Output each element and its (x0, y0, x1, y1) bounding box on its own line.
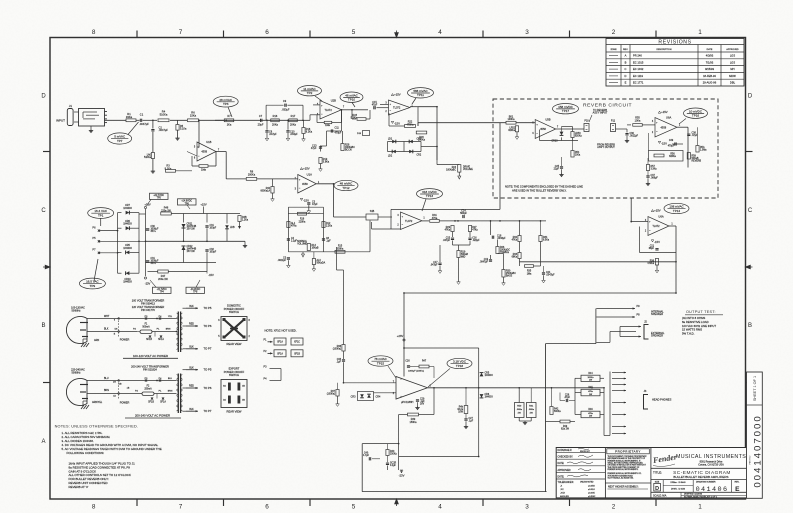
svg-text:+14.9VDC: +14.9VDC (181, 201, 192, 203)
resistor R35 1M (525, 265, 534, 268)
title block left column (556, 452, 605, 454)
svg-text:0041407000: 0041407000 (752, 414, 763, 487)
svg-text:SHEET 1 OF 1: SHEET 1 OF 1 (753, 376, 757, 401)
svg-text:1N4003: 1N4003 (123, 207, 132, 210)
svg-text:50KaDA: 50KaDA (317, 262, 326, 265)
svg-text:DRMm- I G 9440: DRMm- I G 9440 (671, 482, 687, 484)
svg-text:.XXX: .XXX (560, 492, 566, 494)
svg-text:POWER: POWER (120, 400, 130, 404)
svg-text:220Ka: 220Ka (299, 221, 306, 223)
resistor R5 (176, 125, 179, 131)
switch S1B (366, 214, 378, 220)
wire from volume to power amp (336, 247, 338, 270)
svg-text:470μF: 470μF (668, 146, 675, 148)
svg-text:OUTPUT TEST:: OUTPUT TEST: (686, 310, 716, 314)
wire tone bus (440, 220, 547, 222)
diode bridge LD1 CR1 LD2 CR2 (388, 139, 422, 155)
svg-text:A: A (625, 54, 627, 58)
svg-text:R47: R47 (422, 361, 427, 363)
title row (651, 467, 748, 469)
svg-text:BRN: BRN (104, 390, 109, 392)
test point TP18 (447, 358, 472, 368)
svg-text:R35: R35 (527, 271, 532, 273)
capacitor C5 bottom (287, 257, 290, 259)
svg-text:J1: J1 (69, 104, 73, 108)
svg-text:BCCN: BCCN (345, 149, 352, 151)
resistor R6 (188, 119, 199, 122)
resistor R54 (571, 151, 574, 158)
wire (498, 253, 504, 255)
potentiometer R59 REVERB (687, 153, 690, 160)
svg-text:820Ka: 820Ka (575, 136, 582, 138)
resistor R28 (341, 144, 344, 151)
resistor R16 (271, 119, 280, 122)
svg-text:.0033μF: .0033μF (497, 238, 506, 240)
svg-text:S1B: S1B (370, 210, 375, 213)
svg-text:.1μF: .1μF (469, 420, 474, 422)
svg-text:6: 6 (265, 504, 269, 511)
capacitor C33 (342, 359, 345, 361)
svg-text:62a 1W: 62a 1W (561, 429, 570, 431)
svg-text:SCALE: N/A: SCALE: N/A (653, 494, 667, 497)
voltage label box TP8 (186, 287, 205, 293)
svg-text:.033μF: .033μF (282, 108, 290, 112)
svg-text:SCT/MIN-2013E-(701)EX-KIT: 1: SCT/MIN-2013E-(701)EX-KIT: 1 OF 1 (684, 497, 717, 499)
op-amp U1B (197, 142, 216, 161)
capacitor C1 (136, 119, 140, 121)
ground plug domestic (81, 343, 84, 347)
svg-text:MH: MH (730, 67, 734, 71)
resistor R36 (655, 259, 658, 266)
test point TP13 (417, 189, 443, 199)
svg-text:-15V: -15V (394, 121, 400, 125)
svg-text:.0047μF: .0047μF (546, 275, 555, 277)
svg-text:1: 1 (698, 29, 702, 36)
svg-text:U1B: U1B (206, 140, 211, 144)
capacitor C8 (266, 120, 268, 130)
svg-text:TP10: TP10 (348, 98, 356, 102)
capacitor C28b (386, 462, 389, 464)
svg-text:TP18: TP18 (456, 364, 464, 368)
svg-text:470Ka: 470Ka (406, 123, 414, 126)
capacitor C30 (146, 228, 150, 230)
svg-text:B: B (748, 323, 752, 329)
svg-text:+15V: +15V (654, 209, 661, 213)
svg-text:SCOTTSDALE, AZ 85258 USA: SCOTTSDALE, AZ 85258 USA (608, 477, 634, 480)
wire (422, 220, 429, 222)
wire (458, 258, 460, 281)
drawing number row (651, 479, 748, 481)
svg-text:DATABASE F:: DATABASE F: (558, 449, 573, 452)
resistor R37 (336, 390, 339, 397)
svg-text:-15V: -15V (661, 141, 667, 145)
resistor R1 (126, 119, 136, 122)
svg-text:(100Ka): (100Ka) (327, 394, 335, 396)
svg-text:MDW: MDW (729, 74, 736, 78)
svg-text:P11: P11 (611, 120, 616, 123)
svg-text:-23V: -23V (145, 282, 151, 286)
svg-text:±0.050: ±0.050 (588, 486, 595, 488)
svg-text:C: C (625, 67, 627, 71)
svg-text:220a 1W: 220a 1W (161, 210, 171, 213)
svg-text:XF1A: XF1A (277, 353, 283, 356)
svg-text:R46: R46 (588, 409, 593, 411)
svg-text:.047μF: .047μF (443, 240, 451, 242)
resistor R3 (166, 169, 176, 172)
capacitor C31b (146, 260, 150, 262)
fender logo (651, 452, 678, 465)
svg-text:REAR VIEW: REAR VIEW (227, 342, 242, 346)
svg-text:1N4003: 1N4003 (485, 375, 494, 377)
svg-text:±0.005: ±0.005 (588, 492, 595, 494)
ground (177, 137, 179, 139)
svg-text:.068a: .068a (516, 409, 522, 411)
svg-text:1N4003: 1N4003 (485, 397, 494, 399)
wire main (199, 119, 224, 121)
svg-text:REAR VIEW: REAR VIEW (227, 409, 242, 413)
svg-text:TP17: TP17 (562, 109, 570, 113)
wire (145, 241, 147, 276)
svg-text:LDB: LDB (230, 227, 235, 229)
svg-text:100a: 100a (575, 155, 581, 157)
voltage label box TP5 (150, 193, 169, 199)
svg-text:1: 1 (698, 504, 702, 511)
transformer T1 (177, 312, 179, 353)
test point TP15 (368, 356, 393, 366)
svg-text:BLK: BLK (189, 367, 194, 369)
svg-text:EC 1771: EC 1771 (633, 81, 644, 85)
svg-text:10Ka: 10Ka (635, 119, 641, 122)
test point TP2 (298, 86, 322, 96)
svg-text:BLK: BLK (189, 409, 194, 411)
wire U1A out (316, 183, 333, 185)
svg-text:FENDER MUSICAL INSTRUMENTS.: FENDER MUSICAL INSTRUMENTS. (608, 468, 639, 471)
export switch box (221, 380, 247, 408)
test point TP9 (79, 278, 105, 289)
svg-text:1N4003: 1N4003 (123, 281, 132, 284)
svg-text:35V+: 35V+ (151, 263, 157, 265)
svg-text:R17: R17 (291, 114, 296, 118)
svg-text:BLU: BLU (104, 378, 109, 380)
wire (143, 119, 158, 121)
resistors R50 R51 output (515, 403, 525, 418)
svg-text:SF1B: SF1B (146, 339, 152, 341)
diode CR5 (126, 251, 130, 255)
svg-text:50/60Hz: 50/60Hz (71, 310, 81, 313)
svg-text:ARE USED IN THE 'BULLET REVERB: ARE USED IN THE 'BULLET REVERB' ONLY. (512, 188, 567, 192)
wire (152, 132, 154, 153)
zener CR12 (182, 246, 186, 250)
wires to J2 (620, 326, 641, 328)
capacitor C2 (151, 129, 154, 131)
svg-text:29-AUG-96: 29-AUG-96 (703, 81, 717, 85)
svg-text:BLK: BLK (189, 306, 194, 308)
svg-text:6: 6 (265, 29, 269, 36)
svg-text:R18: R18 (300, 219, 305, 221)
capacitor C18 (490, 221, 492, 235)
svg-text:TO P6: TO P6 (204, 324, 212, 328)
feedback box R56 (649, 151, 684, 162)
resistor R18 (303, 120, 305, 127)
test point TP14 (664, 203, 689, 213)
svg-text:-22.7VDC: -22.7VDC (157, 289, 167, 291)
svg-text:4: 4 (438, 29, 442, 36)
svg-text:100KaBC: 100KaBC (446, 170, 456, 172)
svg-text:TL072: TL072 (393, 106, 401, 110)
wire (421, 146, 437, 148)
wire U1B out (216, 151, 226, 153)
capacitor C37 (646, 175, 649, 177)
test point TP17 (553, 104, 579, 114)
resistor R52 (516, 123, 518, 126)
capacitor C15b (452, 232, 454, 238)
svg-text:1N4003: 1N4003 (123, 247, 132, 250)
resistor R20 (416, 131, 427, 134)
connector pin P6 (98, 230, 100, 232)
svg-text:.068μF: .068μF (651, 178, 659, 180)
svg-text:.47μF: .47μF (564, 397, 571, 399)
svg-text:C26: C26 (405, 361, 410, 363)
svg-text:R49: R49 (563, 426, 568, 428)
resistor R8 (246, 178, 257, 181)
capacitor C16 (469, 232, 471, 238)
svg-text:BULLET/BULLET REVERB AMPLIFIER: BULLET/BULLET REVERB AMPLIFIERS (673, 475, 728, 479)
svg-text:47μF: 47μF (312, 203, 318, 206)
svg-text:150Ka: 150Ka (390, 454, 397, 456)
capacitor C7 (260, 119, 262, 122)
svg-text:SF1A: SF1A (158, 338, 164, 341)
svg-text:3: 3 (525, 29, 529, 36)
svg-text:15Ka: 15Ka (190, 113, 197, 117)
wire vertical to lower bus (225, 152, 227, 179)
resistor AL3 bottom (312, 259, 315, 265)
wire (198, 120, 200, 147)
svg-text:1W: 1W (589, 380, 592, 382)
wire lower bus (226, 178, 246, 180)
svg-text:TP15: TP15 (377, 361, 385, 365)
wire long to U6B (520, 261, 677, 263)
resistor R32 (518, 236, 521, 242)
svg-text:02415.107: 02415.107 (580, 451, 591, 453)
svg-text:C11: C11 (335, 127, 340, 130)
resistor R42 (550, 407, 553, 415)
svg-text:P/N 021824: P/N 021824 (143, 368, 157, 372)
svg-text:ASS'Y OUTPUT: ASS'Y OUTPUT (597, 146, 615, 149)
svg-text:FOLLOWING CONDITIONS:: FOLLOWING CONDITIONS: (67, 451, 105, 455)
AC plug export (66, 379, 87, 406)
domestic switch box (221, 317, 247, 341)
svg-text:DESCRIPTION: DESCRIPTION (657, 49, 672, 51)
svg-text:R44: R44 (588, 373, 593, 375)
svg-text:3.9Ka: 3.9Ka (323, 161, 330, 164)
svg-text:560pF: 560pF (460, 212, 467, 215)
resistor R53 (571, 132, 574, 138)
capacitor C25 (560, 166, 563, 168)
capacitor C41 (368, 457, 370, 460)
svg-text:.0022μF: .0022μF (277, 260, 286, 262)
svg-text:CR2: CR2 (417, 154, 422, 156)
svg-text:TP7: TP7 (117, 139, 123, 143)
svg-text:4558: 4558 (302, 182, 308, 186)
svg-text:1000μF (100Ka): 1000μF (100Ka) (408, 371, 424, 373)
svg-text:.068a: .068a (528, 409, 534, 411)
svg-text:4558: 4558 (201, 150, 207, 154)
wire reverb return down (630, 132, 632, 136)
resistor R40 (271, 187, 274, 194)
-23V label (144, 277, 146, 279)
svg-text:LGS: LGS (730, 60, 736, 64)
svg-text:R15: R15 (338, 246, 343, 248)
capacitor C15 (352, 109, 368, 111)
resistor R38 (342, 345, 345, 352)
svg-text:B: B (625, 60, 627, 64)
resistor R51 (506, 121, 516, 124)
diode CR6b (480, 394, 484, 398)
svg-text:5: 5 (352, 29, 356, 36)
resistor R12 (322, 222, 325, 228)
svg-text:CR3: CR3 (351, 396, 356, 399)
svg-text:47Ka: 47Ka (512, 240, 518, 242)
connector pin P5 (98, 240, 100, 242)
svg-text:2: 2 (612, 504, 616, 511)
svg-text:5% T.H.D.: 5% T.H.D. (682, 331, 695, 335)
op-amp U6A (655, 118, 677, 138)
svg-text:TO P7: TO P7 (204, 347, 212, 351)
svg-text:330Ka: 330Ka (337, 248, 344, 250)
diode CR5b (480, 373, 484, 377)
svg-text:1.3Ma: 1.3Ma (700, 150, 707, 152)
svg-text:10W: 10W (458, 411, 464, 413)
svg-text:NOTE: XF1C NOT USED.: NOTE: XF1C NOT USED. (265, 328, 297, 332)
svg-text:200-240 VOLT AC POWER: 200-240 VOLT AC POWER (135, 414, 170, 418)
svg-text:TP5: TP5 (157, 198, 162, 200)
svg-text:47Ka: 47Ka (291, 226, 297, 228)
feedback 1Ma U2B (341, 110, 343, 123)
svg-text:50/60Hz: 50/60Hz (71, 372, 81, 375)
svg-text:100μF: 100μF (210, 228, 217, 230)
wire (100, 218, 102, 226)
wires power amp input (344, 382, 397, 384)
svg-text:33Ka: 33Ka (126, 115, 133, 119)
svg-text:200Ka: 200Ka (248, 173, 256, 177)
ground at jack (90, 126, 92, 129)
wire (177, 120, 179, 124)
svg-text:+23V: +23V (397, 334, 404, 338)
svg-text:47μF: 47μF (311, 147, 317, 150)
wire (105, 119, 127, 121)
svg-text:470a: 470a (432, 217, 438, 220)
title block proprietary (607, 449, 650, 454)
svg-text:1Ka: 1Ka (227, 122, 232, 126)
op-amp U1A (298, 175, 317, 194)
svg-text:MID: MID (461, 257, 466, 259)
svg-text:100-120 VOLT AC POWER: 100-120 VOLT AC POWER (133, 354, 168, 358)
svg-text:(100Ka): (100Ka) (333, 349, 341, 351)
svg-text:15V 1W: 15V 1W (187, 251, 196, 253)
voltage label box TP4 (153, 287, 172, 293)
capacitor C14 (457, 217, 459, 221)
svg-text:P/N 041770: P/N 041770 (141, 308, 155, 312)
resistor AL1 (287, 222, 290, 228)
svg-text:C: C (41, 208, 46, 214)
svg-text:SPEAKER: SPEAKER (651, 312, 663, 316)
svg-text:.47μF: .47μF (692, 135, 699, 137)
svg-text:820Ka: 820Ka (669, 156, 676, 158)
connector P10 (584, 124, 589, 132)
voltage label box TP6 (178, 199, 197, 205)
svg-text:16V: 16V (420, 403, 425, 405)
resistor R18 (298, 212, 307, 215)
wire U6A out (677, 126, 688, 128)
svg-text:.1μF: .1μF (326, 241, 331, 243)
svg-text:ZONE: ZONE (610, 49, 617, 51)
svg-text:XF1A: XF1A (277, 341, 283, 344)
svg-text:XF1B: XF1B (294, 354, 300, 356)
test point TP10 (340, 92, 363, 102)
capacitor C19 (489, 259, 492, 261)
wire U6B out (669, 225, 676, 227)
capacitor C24 (542, 272, 545, 274)
svg-text:47μF: 47μF (372, 104, 378, 107)
resistor R55 (627, 124, 631, 126)
svg-text:REV.: REV. (623, 49, 628, 51)
svg-text:NEXT HIGHER ASSEMBLY:: NEXT HIGHER ASSEMBLY: (608, 486, 639, 489)
svg-text:EC 1042: EC 1042 (633, 67, 644, 71)
svg-text:CHECKED BY:: CHECKED BY: (558, 457, 574, 459)
test point TP12 (334, 180, 358, 190)
svg-text:BLU: BLU (168, 378, 173, 380)
svg-text:4: 4 (438, 504, 442, 511)
svg-text:TP8: TP8 (193, 292, 198, 294)
svg-text:U6A: U6A (666, 116, 671, 120)
svg-text:C7: C7 (259, 114, 263, 118)
svg-text:VOLUME: VOLUME (463, 169, 473, 171)
resistor R15 bottom (335, 250, 345, 253)
svg-text:TO P7: TO P7 (204, 409, 212, 413)
svg-text:TO P6: TO P6 (204, 386, 212, 390)
svg-text:.XX: .XX (560, 489, 564, 491)
svg-text:R7: R7 (227, 114, 231, 118)
resistor R2 (151, 153, 154, 159)
resistor R23 (357, 118, 366, 121)
svg-text:3.3Ka: 3.3Ka (651, 169, 658, 171)
svg-text:C39: C39 (669, 140, 674, 142)
svg-text:TL072: TL072 (652, 224, 660, 228)
svg-text:100μF: 100μF (210, 252, 217, 254)
wire (176, 170, 193, 172)
svg-text:D: D (625, 74, 627, 78)
svg-text:CR13: CR13 (551, 140, 558, 143)
diode CR6 (126, 226, 130, 230)
svg-text:INPUT: INPUT (56, 118, 65, 122)
headphone pins (609, 372, 611, 436)
svg-text:TP4: TP4 (160, 292, 165, 294)
svg-text:CR4: CR4 (376, 396, 381, 399)
svg-text:U1A: U1A (307, 173, 312, 177)
svg-text:TL072: TL072 (325, 108, 333, 112)
svg-text:SF1A: SF1A (160, 400, 166, 403)
svg-text:REVERB CIRCUIT: REVERB CIRCUIT (583, 102, 632, 108)
svg-text:DBL: DBL (730, 81, 736, 85)
svg-text:15V 1W: 15V 1W (187, 229, 196, 231)
capacitor C10 (287, 120, 289, 130)
capacitor C39 (672, 143, 683, 145)
zener CR11 (182, 224, 186, 228)
capacitor C32 (205, 249, 208, 251)
svg-text:TO P5: TO P5 (204, 368, 212, 372)
potentiometer R24 DRIVE (436, 147, 438, 165)
potentiometer R30 BASS (502, 270, 505, 278)
